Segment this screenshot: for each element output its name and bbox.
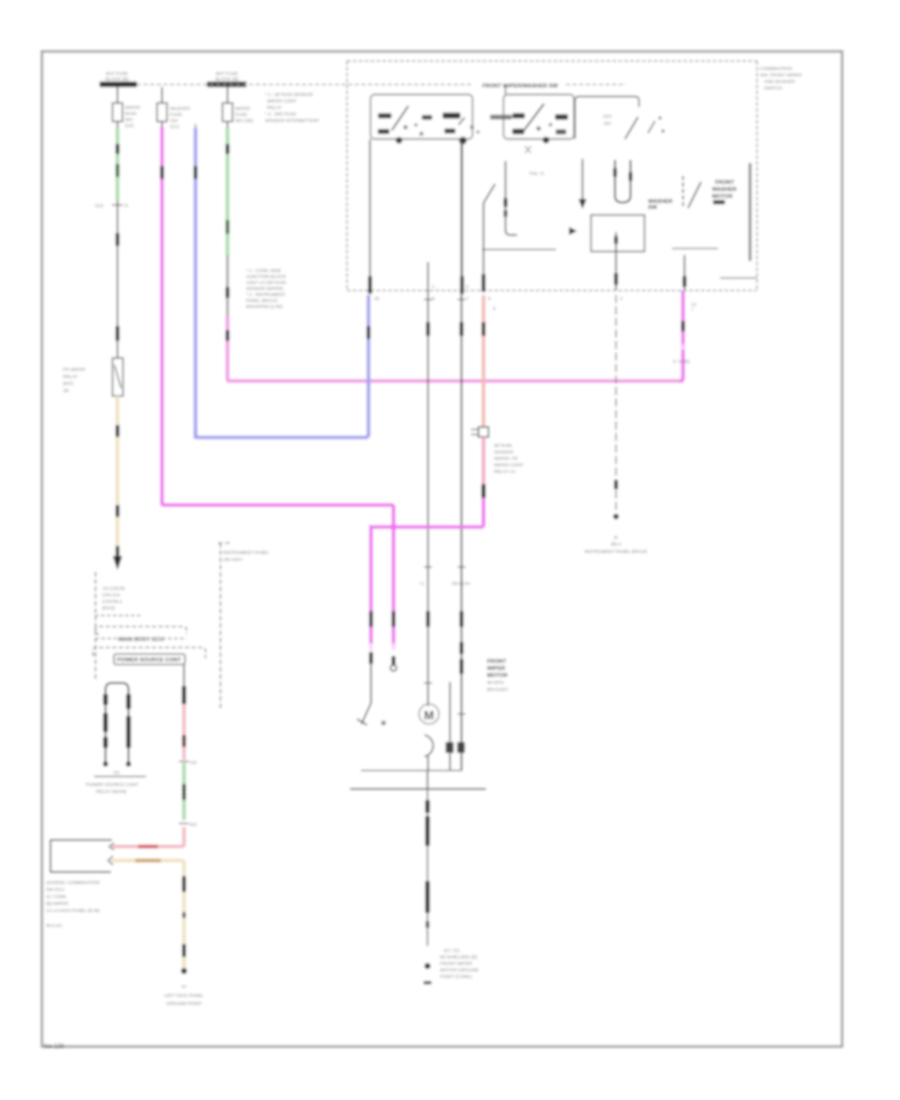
label: front washer motor (712, 180, 737, 204)
svg-text:1: 1 (432, 284, 435, 289)
svg-text:1B: 1B (63, 388, 69, 393)
intermittent unit: left vertical with down arrow (579, 159, 587, 209)
label: ground point bottom middle (440, 948, 479, 979)
label: note block right of F3 (265, 92, 320, 123)
label: junction block note (right of W4) (246, 268, 287, 309)
pin labels below boundary (374, 284, 697, 312)
svg-text:1A LH KICK PANEL (B-W): 1A LH KICK PANEL (B-W) (46, 908, 100, 913)
wire: pink-magenta below connector to y=527 (481, 437, 485, 527)
svg-text:RELAY: RELAY (267, 105, 282, 110)
wire: washer link lines (672, 248, 718, 250)
svg-text:WASHER: WASHER (712, 187, 737, 193)
svg-text:FR WIPER: FR WIPER (63, 367, 86, 372)
svg-text:COSTB-2: COSTB-2 (102, 599, 122, 604)
svg-text:WIPER: WIPER (235, 106, 251, 111)
wire: vertical below U2 with L-end (504, 161, 517, 235)
svg-text:16: 16 (374, 296, 380, 301)
svg-text:W/ RAIN: W/ RAIN (494, 443, 512, 448)
dashed boundary: instrument panel J/B left edge (95, 572, 97, 681)
bracket to other system (51, 840, 113, 872)
svg-text:RELAY: RELAY (63, 374, 78, 379)
wire W2 magenta (P) x=162 (160, 127, 164, 505)
wire: horizontal link y=249.5 (482, 249, 556, 251)
svg-text:FRONT: FRONT (487, 659, 507, 665)
relay box U4 (591, 215, 645, 252)
svg-text:BLOCK (B): BLOCK (B) (216, 77, 239, 82)
svg-text:MOUNTED (LHD): MOUNTED (LHD) (246, 304, 283, 309)
link line under relay (94, 776, 146, 778)
bus line 2 y=789 (350, 788, 486, 790)
wire: vertical from U1 left edge down to boundary (becomes blue) (368, 139, 372, 294)
svg-text:M: M (424, 709, 434, 723)
svg-text:JUNCTION BLOCK: JUNCTION BLOCK (246, 274, 287, 279)
junction node at (393.5,527) (390, 524, 396, 530)
svg-text:COMBINATION: COMBINATION (760, 66, 792, 71)
fuse F3 (223, 87, 254, 128)
wire: blue L-route x=368.5 down, left to x=195.5 (196, 295, 371, 438)
svg-text:25A (1B): 25A (1B) (235, 118, 253, 123)
svg-text:POWER SOURCE CONT: POWER SOURCE CONT (117, 658, 182, 664)
svg-text:RELAY (MAIN): RELAY (MAIN) (96, 789, 127, 794)
wire: magenta x=683 from boundary down to y=381 (673, 291, 690, 382)
svg-text:WIPER CONT: WIPER CONT (494, 463, 524, 468)
wire: magenta x=371 down to switch blade (369, 525, 373, 664)
dashed box: MAIN BODY ECU (96, 627, 187, 644)
svg-text:MOTOR: MOTOR (487, 673, 508, 679)
svg-text:* 2 : INSTRUMENT: * 2 : INSTRUMENT (246, 292, 286, 297)
intermittent unit: U loop (613, 160, 632, 203)
svg-text:LEGEND: COMBINATION: LEGEND: COMBINATION (46, 880, 100, 885)
wire: dashed interconnect line at y=84.5 (137, 84, 473, 86)
svg-text:INT: INT (604, 121, 612, 126)
svg-text:2: 2 (620, 296, 623, 301)
svg-text:SW: SW (648, 205, 658, 211)
svg-text:MOTOR: MOTOR (712, 194, 733, 200)
svg-text:MAIN BODY ECU: MAIN BODY ECU (118, 637, 163, 643)
svg-text:FRONT: FRONT (715, 180, 735, 186)
svg-text:POINT (COWL): POINT (COWL) (440, 974, 473, 979)
svg-text:FUSE: FUSE (170, 112, 182, 117)
svg-text:GROUND POINT: GROUND POINT (166, 1001, 202, 1006)
svg-text:INSTRUMENT PANEL: INSTRUMENT PANEL (223, 550, 269, 555)
svg-text:(1C): (1C) (170, 124, 179, 129)
svg-text:WIPER: WIPER (487, 666, 505, 672)
svg-text:MOTOR GROUND: MOTOR GROUND (440, 968, 479, 973)
wire W1 tan segment (L-Y) (116, 396, 120, 547)
wire W3 blue (L) x=195.5 (194, 124, 198, 439)
svg-text:IE2: IE2 (190, 822, 197, 827)
svg-text:E1: E1 (114, 770, 120, 775)
svg-text:AND WASHER: AND WASHER (764, 79, 796, 84)
wire: tan to ground x=184 (111, 859, 187, 974)
switch blade S1 at park contact (357, 664, 386, 725)
svg-text:W/ SHIELDED (B): W/ SHIELDED (B) (440, 955, 478, 960)
svg-text:W/ MTG: W/ MTG (487, 680, 505, 685)
svg-text:+1: +1 (419, 581, 425, 586)
svg-text:(B) WIPER: (B) WIPER (46, 901, 69, 906)
switch body box U1 (wiper switch) (371, 95, 480, 145)
svg-text:(1E): (1E) (125, 123, 134, 128)
label: J/B name (223, 550, 269, 562)
wire W4 pink segment turning right at y=381 (226, 315, 683, 381)
svg-text:4: 4 (466, 284, 469, 289)
svg-text:(B) 4: (B) 4 (611, 542, 621, 547)
svg-text:SWITCH: SWITCH (764, 86, 782, 91)
bus line 1 y=770.5 (361, 770, 462, 772)
power source bus bar B1 (100, 71, 138, 87)
dashed box: power source control top (93, 648, 206, 659)
svg-text:FUSE: FUSE (235, 112, 247, 117)
fuse F1 (113, 87, 141, 128)
svg-text:SW. FRONT WIPER: SW. FRONT WIPER (760, 73, 802, 78)
svg-text:* 2 : W/O RAIN: * 2 : W/O RAIN (265, 112, 296, 117)
wire W4 white segment (226, 255, 230, 315)
svg-text:(+ S-05): (+ S-05) (673, 359, 690, 364)
svg-text:BRACKET: BRACKET (487, 687, 509, 692)
svg-text:W-9 (A): W-9 (A) (46, 923, 62, 928)
wire W1 green segment (G-B) x=117 (116, 127, 120, 201)
washer motor bar (749, 163, 752, 261)
svg-text:BAT FUSE: BAT FUSE (106, 71, 128, 76)
dashed tick row (95, 615, 141, 617)
svg-text:WIPER CONT: WIPER CONT (267, 99, 297, 104)
svg-text:PANEL BRACE: PANEL BRACE (246, 298, 278, 303)
svg-text:(INT): (INT) (63, 381, 74, 386)
svg-text:(1J): (1J) (95, 203, 103, 208)
svg-text:(W-S) B+: (W-S) B+ (452, 581, 471, 586)
connector C1 on salmon wire (471, 427, 489, 437)
switch body box U3 (washer) (575, 97, 665, 140)
svg-text:* 1 : W/ RAIN SENSOR: * 1 : W/ RAIN SENSOR (265, 92, 314, 97)
svg-text:7: 7 (466, 296, 469, 301)
svg-text:(E9-8): (E9-8) (102, 606, 115, 611)
washer switch label (648, 199, 673, 211)
wire: magenta x=393.5 down to open contact (391, 527, 397, 671)
connector squares on motor wires (446, 742, 465, 753)
outer dashed box (switch assembly boundary) (347, 61, 757, 291)
label: relay name (86, 782, 139, 794)
svg-text:SENSOR WIPER): SENSOR WIPER) (246, 286, 284, 291)
svg-text:+B COSTB: +B COSTB (102, 586, 125, 591)
svg-text:EC / E1: EC / E1 (444, 948, 460, 953)
relay/fuse component K1 on W1 (63, 358, 123, 396)
front wiper motor M1 (419, 704, 439, 771)
svg-text:MAIN: MAIN (125, 111, 136, 116)
label: relay note right of connector (494, 443, 524, 474)
svg-text:POWER SOURCE CONT: POWER SOURCE CONT (86, 782, 139, 787)
solid box: POWER SOURCE CONTROL (114, 654, 185, 665)
wire: magenta horizontal y=505 from W2 to x=393.5 (162, 503, 394, 527)
label: ECU pin block (102, 586, 125, 611)
label: left kick panel block (46, 880, 100, 928)
arrowhead node left of relay box (569, 227, 577, 235)
contact bars inside U1 (378, 113, 392, 118)
wire: grey x=428 long vertical (419, 262, 432, 706)
svg-text:INSTRUMENT PANEL BRACE: INSTRUMENT PANEL BRACE (585, 549, 648, 554)
svg-text:CPU 8-9: CPU 8-9 (102, 593, 120, 598)
svg-text:WIPER: FR: WIPER: FR (494, 456, 518, 461)
wire: vertical from U1 dot x=462 (460, 140, 464, 294)
switch lever in U1 (392, 106, 409, 130)
wire W1 grey segment (116, 201, 120, 358)
svg-text:TAIL *2: TAIL *2 (529, 171, 544, 176)
washer switch contact (683, 176, 701, 208)
svg-text:SENSOR INTERMITTENT: SENSOR INTERMITTENT (265, 118, 320, 123)
svg-text:FRONT WIPER: FRONT WIPER (440, 961, 473, 966)
svg-text:5: 5 (493, 306, 496, 311)
svg-text:BAT FUSE: BAT FUSE (216, 71, 238, 76)
switch contact to x=483.5 (482, 184, 495, 292)
wire: ECU output pink/green/pink x=184 (112, 665, 197, 849)
wire: grey x=450 companion vertical (449, 682, 451, 771)
fuse F2 (157, 87, 191, 129)
power source bus bar B2 (207, 71, 247, 87)
svg-text:FRONT WIPER/WASHER SW: FRONT WIPER/WASHER SW (482, 84, 559, 90)
svg-text:9: 9 (488, 296, 491, 301)
switch body box U2 (mist/int) (490, 85, 574, 153)
label: ground IH (164, 984, 204, 1006)
svg-text:15A: 15A (170, 118, 179, 123)
wire: vertical from U4 down to boundary (614, 252, 618, 291)
svg-text:+: + (691, 307, 694, 312)
wire: stub between buses and ground lead x=427.5 (424, 771, 432, 985)
svg-text:LEFT KICK PANEL: LEFT KICK PANEL (164, 993, 204, 998)
wire: salmon x=483.5 (482, 295, 486, 427)
svg-text:WIPER: WIPER (125, 105, 141, 110)
svg-text:OFF: OFF (603, 114, 612, 119)
svg-text:IH: IH (182, 984, 187, 989)
label: front wiper motor (487, 659, 509, 692)
junction dot at U1 lower right (459, 137, 467, 145)
svg-text:BLOCK (B): BLOCK (B) (106, 77, 129, 82)
svg-text:J/B ASSY: J/B ASSY (223, 557, 243, 562)
svg-text:WASHER: WASHER (170, 106, 191, 111)
connector label 1J on W1 (95, 203, 128, 208)
relay coil loop (inverted U) (103, 683, 131, 775)
dashed boundary: instrument panel J/B right edge (218, 543, 232, 709)
svg-text:SW ECU: SW ECU (46, 887, 64, 892)
wire: washer motor vertical to boundary (683, 255, 687, 291)
svg-text:8: 8 (432, 296, 435, 301)
wire: dashed grey x=616 to ground point (585, 295, 648, 554)
label: switch assembly name (top right) (760, 66, 802, 91)
wire: magenta horizontal y=527 x=371..483.5 (373, 525, 484, 529)
svg-text:1C COWL: 1C COWL (46, 894, 67, 899)
svg-text:* 1 : COWL SIDE: * 1 : COWL SIDE (246, 268, 281, 273)
svg-text:RELAY 1A: RELAY 1A (494, 469, 516, 474)
svg-text:30A: 30A (125, 117, 134, 122)
svg-text:ASSY LH (W/ RAIN: ASSY LH (W/ RAIN (246, 280, 286, 285)
wire: grey x=461.5 long vertical (452, 140, 471, 771)
svg-text:fce-128: fce-128 (44, 1044, 65, 1050)
wire W4 green segment x=227.5 (226, 127, 230, 255)
svg-text:I19: I19 (190, 760, 197, 765)
arrow terminal on W1 (113, 546, 122, 570)
connector chevrons at pink wire end (108, 843, 114, 865)
svg-text:8: 8 (125, 203, 128, 208)
svg-text:SENSOR: SENSOR (494, 450, 514, 455)
